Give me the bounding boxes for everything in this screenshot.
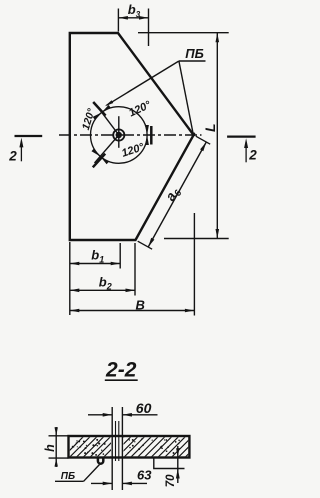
- loop tick at 0 deg: [150, 126, 153, 145]
- loop bump under bar (PB in section): [98, 457, 103, 464]
- svg-text:b2: b2: [99, 275, 112, 292]
- svg-text:120°: 120°: [120, 141, 146, 160]
- hole edge right (section): [121, 407, 123, 490]
- h extension top: [49, 435, 69, 437]
- a6 extension from bottom vertex: [138, 241, 152, 249]
- PB leader to tick: [107, 61, 179, 105]
- B dimension line: [70, 310, 195, 312]
- hole circle: [113, 129, 124, 140]
- plate outline: [70, 33, 194, 240]
- svg-text:ПБ: ПБ: [185, 46, 204, 61]
- hole inner line left: [115, 421, 117, 461]
- section arrow right: [245, 142, 247, 162]
- hole inner line right: [118, 421, 120, 461]
- angular dimension arc: [91, 107, 148, 164]
- svg-text:L: L: [202, 123, 218, 132]
- svg-text:h: h: [43, 444, 57, 452]
- svg-text:b1: b1: [91, 248, 104, 265]
- svg-text:60: 60: [136, 400, 152, 416]
- svg-text:2: 2: [8, 149, 17, 164]
- PB bottom shelf: [55, 480, 84, 482]
- b1 dimension line: [70, 263, 120, 265]
- PB leader to vertex: [179, 61, 193, 133]
- svg-text:b3: b3: [128, 2, 141, 19]
- top extension line: [138, 32, 229, 34]
- svg-text:2-2: 2-2: [105, 359, 137, 382]
- 63 dimension line: [91, 482, 147, 484]
- bottom extension line: [164, 238, 229, 240]
- hole center dot: [116, 132, 122, 138]
- concrete hatching: [54, 431, 218, 466]
- section title underline: [105, 379, 138, 381]
- left edge extension below: [69, 242, 71, 315]
- b1 extension right: [119, 243, 121, 269]
- horizontal centerline: [59, 134, 202, 136]
- svg-text:В: В: [136, 297, 145, 312]
- a6 extension from right vertex: [196, 136, 210, 144]
- ledge under bar right: [154, 458, 185, 469]
- b3 extension left: [117, 9, 119, 32]
- PB leader shelf: [179, 60, 206, 62]
- 70 dimension line: [177, 446, 179, 483]
- vertex point dot: [191, 132, 195, 136]
- b3 dimension line: [118, 17, 148, 19]
- h dimension line: [55, 427, 57, 467]
- b2 dimension line: [70, 289, 135, 291]
- B extension right: [193, 213, 195, 316]
- section plane mark right: [227, 136, 256, 138]
- radial at 240 deg: [95, 135, 119, 163]
- section plane mark left: [15, 135, 43, 137]
- section arrow left: [20, 142, 22, 162]
- PB bottom leader: [84, 465, 100, 482]
- section bar outline: [69, 436, 190, 458]
- hole edge left (section): [111, 407, 113, 490]
- L dimension line: [216, 33, 218, 239]
- b2 extension right: [134, 243, 136, 296]
- svg-text:ПБ: ПБ: [61, 471, 75, 482]
- svg-text:63: 63: [137, 468, 152, 483]
- loop tick at 240 deg: [93, 154, 105, 168]
- vertical centerline: [118, 116, 120, 148]
- loop tick at 120 deg: [93, 102, 105, 116]
- concrete dots: [72, 438, 180, 456]
- radial at 120 deg: [97, 105, 119, 135]
- b3 extension right: [148, 9, 150, 47]
- a6 dimension line: [148, 142, 206, 247]
- h extension bottom: [49, 457, 69, 459]
- 60 dimension line: [88, 414, 158, 416]
- svg-text:70: 70: [165, 474, 177, 487]
- svg-text:2: 2: [248, 148, 257, 163]
- arc arrowheads: [145, 135, 149, 145]
